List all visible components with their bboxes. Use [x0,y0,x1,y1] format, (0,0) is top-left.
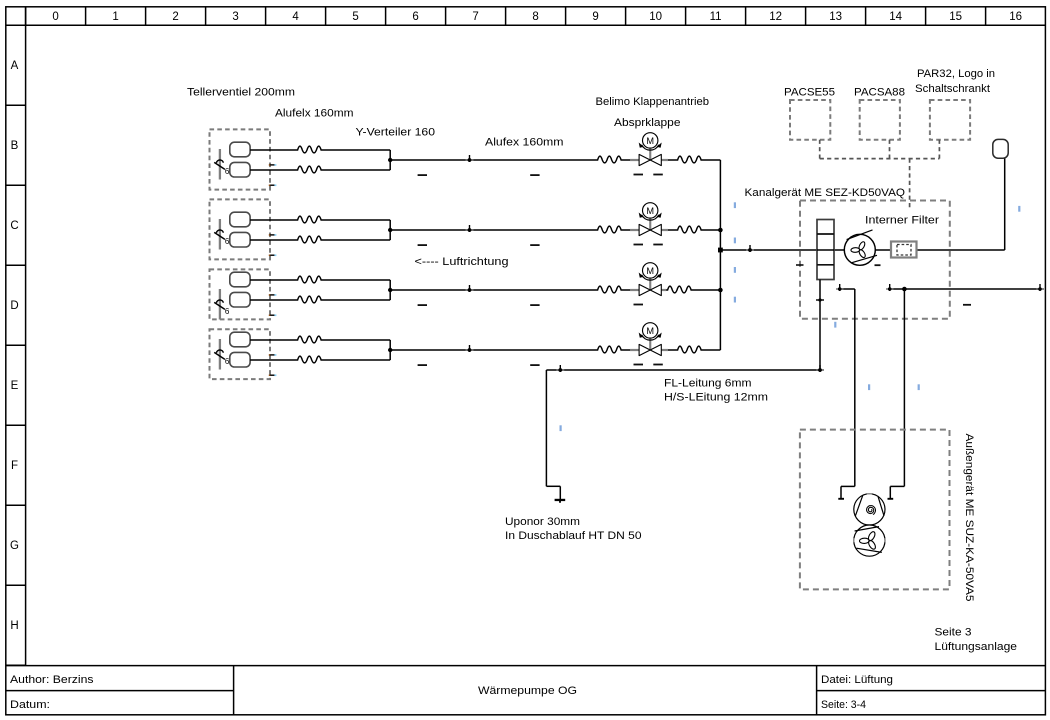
wire branch 1 group 3 [250,280,720,300]
svg-text:Alufelx 160mm: Alufelx 160mm [275,108,354,120]
dash below right refrigerant wire [963,304,971,306]
end tick at drain wire corner [816,365,824,372]
output duct wire group 4 [390,349,596,351]
valve plate symbol V1 (grey stem, arc, diagonal, 6) [214,149,230,180]
svg-text:D: D [10,300,18,312]
svg-text:Uponor 30mm: Uponor 30mm [505,516,580,528]
svg-text:<---- Luftrichtung: <---- Luftrichtung [415,256,509,268]
svg-text:16: 16 [1009,11,1022,23]
svg-text:15: 15 [949,11,962,23]
wire branch 2 group 1 [250,169,296,171]
svg-text:Seite: 3-4: Seite: 3-4 [821,699,866,711]
Belimo damper valve K1 [630,133,668,166]
junction dot right refrigerant wire [902,287,907,292]
flex duct squiggles group 4 [296,336,325,343]
svg-text:Lüftungsanlage: Lüftungsanlage [935,641,1018,653]
svg-text:PACSA88: PACSA88 [854,87,905,99]
placeholder dashes row 4 [418,364,663,366]
svg-text:Schaltschrankt: Schaltschrankt [915,83,991,95]
svg-text:C: C [10,220,18,232]
svg-text:5: 5 [352,11,358,23]
svg-text:PAR32, Logo in: PAR32, Logo in [917,68,995,80]
svg-text:A: A [11,60,19,72]
svg-text:H: H [10,620,18,632]
wire join tick group 3 [466,285,474,292]
tick on vertical stub [816,298,824,301]
svg-text:Y-Verteiler 160: Y-Verteiler 160 [356,127,436,139]
junction dots on bus [718,228,723,233]
svg-text:6: 6 [225,307,230,316]
Aussengeraet dashed enclosure [800,430,950,590]
svg-text:Datum:: Datum: [10,699,50,711]
Tellerventil plenum boxes V4 [230,332,250,367]
svg-text:6: 6 [412,11,418,23]
Tellerventil plenum boxes V1 [230,142,250,177]
svg-text:4: 4 [292,11,299,23]
valve plate symbol V2 (grey stem, arc, diagonal, 6) [214,219,230,250]
compressor circle [854,494,885,525]
svg-text:M: M [646,266,654,276]
svg-text:7: 7 [472,11,478,23]
svg-text:11: 11 [710,11,722,23]
controller PAR32 dashed box [930,100,970,140]
svg-text:0: 0 [52,11,58,23]
dash below fan [875,264,881,266]
pin tick right refrigerant wire [886,284,894,291]
wire branch 1 group 4 [250,340,720,360]
output duct wire group 1 [390,159,596,161]
svg-text:F: F [11,460,18,472]
pin tick left refrigerant wire [836,284,844,291]
drain terminal bar (Uponor) [555,499,566,501]
output duct wire group 3 [390,289,596,291]
wire branch 2 group 4 [250,359,296,361]
wire branch 2 group 3 [250,299,296,301]
svg-text:Author: Berzins: Author: Berzins [10,674,94,686]
svg-text:1: 1 [112,11,118,23]
row header letters [10,60,19,632]
svg-text:G: G [10,540,19,552]
svg-text:In Duschablauf HT DN 50: In Duschablauf HT DN 50 [505,530,642,542]
svg-text:Außengerät ME SUZ-KA-50VA5: Außengerät ME SUZ-KA-50VA5 [963,434,975,602]
svg-text:Alufex 160mm: Alufex 160mm [485,137,564,149]
wire branch 2 group 2 [250,239,296,241]
placeholder dashes row 1 [418,174,663,176]
Tellerventil group V2 dashed enclosure [210,199,271,259]
svg-text:M: M [646,206,654,216]
column header numbers [52,11,1022,23]
flex duct squiggles group 1 [296,146,325,153]
Kanalgeraet dashed enclosure [800,201,950,319]
flex duct squiggles group 2 [296,216,325,223]
riser wire to terminal [1004,159,1006,251]
svg-text:Wärmepumpe OG: Wärmepumpe OG [478,685,577,697]
svg-text:13: 13 [829,11,842,23]
svg-text:10: 10 [649,11,662,23]
Y-Verteiler bar group 2 [389,220,391,240]
svg-text:8: 8 [532,11,538,23]
Belimo damper valve K3 [630,263,666,296]
junction dot Y-Verteiler group 4 [388,348,392,352]
refrigerant line wire right [890,289,1040,499]
pin stubs at enclosure edge V3 [269,295,275,315]
svg-text:12: 12 [769,11,782,23]
svg-text:3: 3 [232,11,238,23]
svg-text:PACSE55: PACSE55 [784,87,835,99]
svg-text:Datei: Lüftung: Datei: Lüftung [821,674,893,686]
main collector bus wire [720,159,1004,351]
Tellerventil group V4 dashed enclosure [210,329,271,379]
svg-text:2: 2 [172,11,178,23]
flex duct squiggles group 3 [296,276,325,283]
svg-text:B: B [11,140,19,152]
condensate drain wire (FL) from heat exchanger [546,280,820,500]
tick on drain wire [556,365,564,372]
svg-text:14: 14 [889,11,902,23]
internal filter component [891,242,917,258]
wire join tick group 2 [466,225,474,232]
svg-text:Kanalgerät ME SEZ-KD50VAQ: Kanalgerät ME SEZ-KD50VAQ [745,187,906,199]
Tellerventil group V3 dashed enclosure [210,269,271,319]
blue pin indicator ticks [560,202,1021,431]
controller PACSE55 dashed box [790,100,830,140]
dashed control wires [820,140,940,210]
svg-text:Seite 3: Seite 3 [935,627,972,639]
wire join tick group 1 [466,155,474,162]
junction dot Y-Verteiler group 3 [388,288,392,292]
svg-text:E: E [11,380,19,392]
svg-text:Absprklappe: Absprklappe [614,117,681,129]
svg-text:M: M [646,326,654,336]
valve plate symbol V3 (grey stem, arc, diagonal, 6) [214,289,230,320]
svg-text:H/S-LEitung 12mm: H/S-LEitung 12mm [664,392,768,404]
Belimo damper valve K2 [630,203,668,236]
placeholder dashes row 2 [418,244,663,246]
pin stubs at enclosure edge V4 [269,355,275,375]
Y-Verteiler bar group 1 [389,150,391,170]
junction dot Y-Verteiler group 1 [388,158,392,162]
outdoor fan circle [854,525,885,556]
placeholder dashes row 3 [418,304,643,306]
svg-text:Belimo Klappenantrieb: Belimo Klappenantrieb [596,96,710,108]
Tellerventil plenum boxes V2 [230,212,250,247]
pin stubs at enclosure edge V1 [269,165,275,185]
pin stubs at enclosure edge V2 [269,235,275,255]
heat exchanger segmented box [817,220,834,280]
wire branch 1 group 2 [250,220,720,240]
svg-text:FL-Leitung 6mm: FL-Leitung 6mm [664,378,752,390]
Belimo damper valve K4 [630,323,668,356]
output duct wire group 2 [390,229,596,231]
wire join tick on branch [746,245,754,252]
svg-text:M: M [646,136,654,146]
branch wire to Kanalgeraet [720,249,1004,251]
Tellerventil group V1 dashed enclosure [210,129,271,189]
Tellerventil plenum boxes V3 [230,272,250,307]
wire join tick group 4 [466,345,474,352]
Y-Verteiler bar group 3 [389,280,391,300]
junction dot Y-Verteiler group 2 [388,228,392,232]
Y-Verteiler bar group 4 [389,340,391,360]
svg-text:Tellerventiel 200mm: Tellerventiel 200mm [187,87,295,99]
wire branch 1 group 1 [250,150,720,170]
junction square at bus branch [718,248,723,253]
duct fan U1 [844,230,877,265]
controller PACSA88 dashed box [860,100,900,140]
end tick right refrigerant wire [1036,284,1044,291]
valve plate symbol V4 (grey stem, arc, diagonal, 6) [214,339,230,370]
refrigerant line wire left [840,289,855,499]
svg-text:Interner Filter: Interner Filter [865,215,939,227]
pin tick on enclosure left edge [796,264,804,266]
terminal pill symbol [993,139,1008,158]
svg-text:9: 9 [592,11,598,23]
